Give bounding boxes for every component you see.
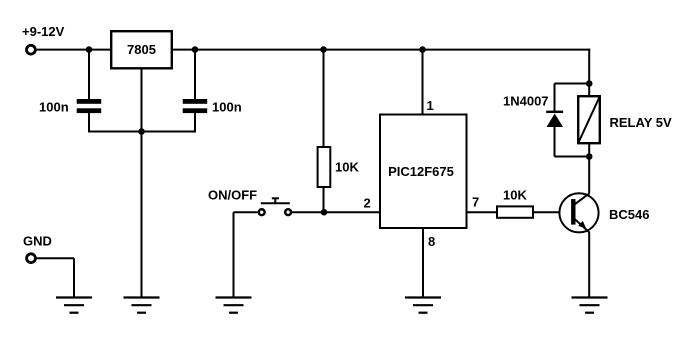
wire C1 top lead [88, 50, 90, 100]
wire ground bus to ground symbol [141, 132, 143, 298]
wire switch left to ground bend [234, 211, 259, 213]
relay K1 coil RELAY 5V [578, 96, 600, 143]
wire R1 top lead [323, 50, 325, 147]
capacitor C1 100n [77, 99, 102, 113]
svg-text:PIC12F675: PIC12F675 [388, 164, 454, 179]
wire switch ground drop [233, 212, 235, 297]
wire rail corner drop to relay [588, 49, 590, 84]
capacitor C2 100n [183, 99, 208, 113]
wire relay bottom lead [588, 143, 590, 157]
wire relay top lead [588, 84, 590, 97]
svg-text:1N4007: 1N4007 [503, 94, 549, 109]
wire C2 bottom lead [194, 113, 196, 132]
node relay bottom junction [586, 153, 593, 160]
node C2 junction [192, 46, 199, 53]
wire R1 bottom lead [323, 187, 325, 212]
wire GND terminal drop [73, 258, 75, 297]
wire diode top horizontal [555, 83, 590, 85]
terminal GND [27, 254, 36, 263]
svg-text:7: 7 [472, 195, 479, 210]
wire diode bottom horizontal [555, 156, 590, 158]
wire diode anode lead [554, 126, 556, 157]
wire 7805 GND pin [141, 69, 143, 132]
svg-text:GND: GND [23, 234, 52, 249]
svg-text:ON/OFF: ON/OFF [208, 188, 257, 203]
ground (7805 / capacitor bus) [124, 298, 160, 313]
svg-text:+9-12V: +9-12V [22, 24, 65, 39]
resistor R1 10K pull-up [318, 147, 331, 187]
svg-text:100n: 100n [39, 100, 69, 115]
node switch/R1/pin2 junction [321, 209, 328, 216]
wire PIC pin1 supply [422, 50, 424, 114]
wire R2 to Q1 base [534, 211, 572, 213]
svg-text:2: 2 [364, 196, 371, 211]
wire C1 bottom lead [88, 113, 90, 132]
switch S1 push-button [259, 198, 291, 215]
wire capacitor ground bus [88, 131, 196, 133]
resistor R2 10K base [497, 206, 533, 217]
wire Q1 emitter down [588, 232, 590, 298]
svg-text:RELAY 5V: RELAY 5V [610, 115, 672, 130]
transistor Q1 BC546 [559, 193, 598, 232]
node input/C1 junction [86, 46, 93, 53]
node R1 top junction [320, 46, 327, 53]
regulator U2 7805 [111, 31, 172, 68]
wire 7805 OUT +5V rail [171, 49, 590, 51]
wire input terminal to 7805 IN [36, 49, 112, 51]
wire diode cathode lead [554, 84, 556, 112]
ground (PIC pin8) [405, 298, 441, 313]
wire Q1 collector up [588, 157, 590, 194]
svg-text:8: 8 [428, 234, 435, 249]
svg-text:BC546: BC546 [609, 207, 649, 222]
diode D1 1N4007 [546, 111, 563, 127]
wire switch to PIC pin2 [291, 211, 380, 213]
wire PIC pin7 to R2 [467, 211, 498, 213]
ground (emitter) [572, 298, 608, 313]
ground (GND terminal) [56, 298, 92, 313]
node pin1 rail junction [419, 46, 426, 53]
node relay top junction [586, 80, 593, 87]
wire C2 top lead [194, 50, 196, 100]
node ground bus junction [138, 128, 145, 135]
terminal +9-12V input [27, 45, 36, 54]
wire GND terminal horizontal [36, 257, 74, 259]
svg-text:10K: 10K [335, 160, 359, 175]
IC U1 PIC12F675 [380, 115, 467, 229]
svg-text:7805: 7805 [127, 42, 156, 57]
svg-text:10K: 10K [503, 188, 527, 203]
ground (switch) [216, 298, 252, 313]
svg-text:1: 1 [427, 98, 434, 113]
wire PIC pin8 ground drop [422, 229, 424, 298]
svg-text:100n: 100n [212, 100, 242, 115]
